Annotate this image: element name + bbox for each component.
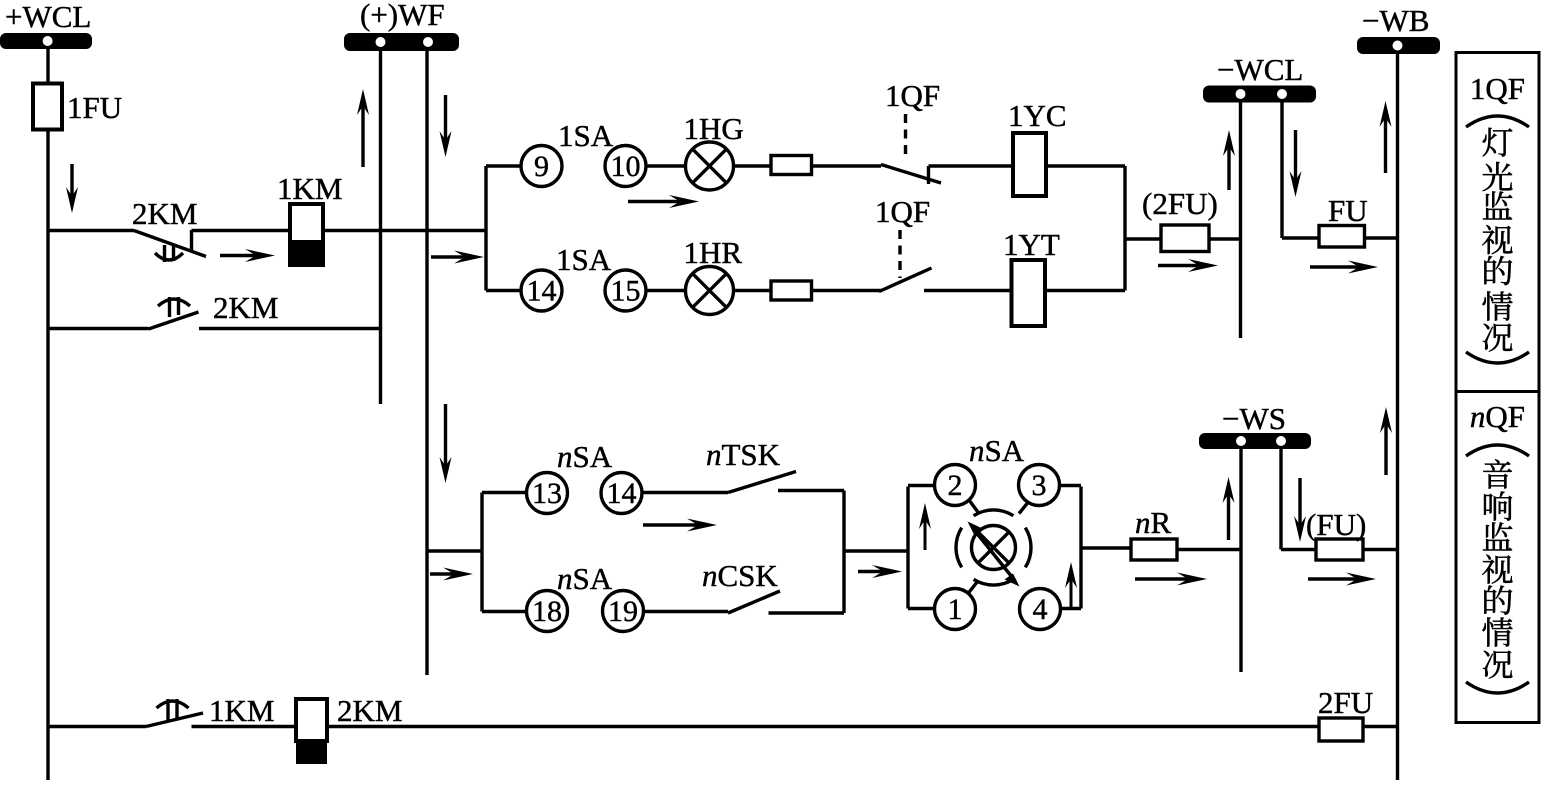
svg-text:(+)WF: (+)WF <box>360 0 445 32</box>
svg-text:FU: FU <box>1328 193 1368 228</box>
svg-text:15: 15 <box>611 275 641 308</box>
svg-text:nQF: nQF <box>1470 399 1525 434</box>
svg-text:1HR: 1HR <box>684 235 743 270</box>
svg-text:4: 4 <box>1033 593 1048 626</box>
svg-text:1KM: 1KM <box>277 171 342 206</box>
svg-text:1YT: 1YT <box>1003 227 1060 262</box>
svg-text:1KM: 1KM <box>209 693 274 728</box>
svg-text:1YC: 1YC <box>1008 98 1067 133</box>
svg-text:nCSK: nCSK <box>702 558 778 593</box>
svg-text:nSA: nSA <box>557 561 613 596</box>
svg-text:18: 18 <box>532 595 562 628</box>
svg-text:2FU: 2FU <box>1318 685 1373 720</box>
svg-text:1HG: 1HG <box>684 111 744 146</box>
svg-text:1QF: 1QF <box>875 194 930 229</box>
svg-text:+WCL: +WCL <box>5 0 91 34</box>
svg-text:−WB: −WB <box>1362 3 1429 38</box>
svg-text:nSA: nSA <box>969 433 1025 468</box>
svg-text:2KM: 2KM <box>213 290 278 325</box>
svg-text:nSA: nSA <box>557 439 613 474</box>
svg-text:1SA: 1SA <box>556 242 612 277</box>
svg-text:nTSK: nTSK <box>706 437 781 472</box>
svg-text:1QF: 1QF <box>885 78 940 113</box>
svg-text:−WCL: −WCL <box>1217 52 1303 87</box>
svg-text:(2FU): (2FU) <box>1142 186 1218 221</box>
svg-text:2KM: 2KM <box>337 693 402 728</box>
svg-text:9: 9 <box>534 150 549 183</box>
svg-text:(FU): (FU) <box>1306 507 1366 542</box>
svg-text:2: 2 <box>948 469 963 502</box>
svg-text:14: 14 <box>607 477 637 510</box>
svg-text:1SA: 1SA <box>558 118 614 153</box>
svg-text:1FU: 1FU <box>67 90 122 125</box>
svg-text:1: 1 <box>948 593 963 626</box>
svg-text:19: 19 <box>608 595 638 628</box>
svg-text:2KM: 2KM <box>132 196 197 231</box>
svg-text:10: 10 <box>611 150 641 183</box>
svg-text:13: 13 <box>532 477 562 510</box>
svg-text:−WS: −WS <box>1222 401 1286 436</box>
svg-text:3: 3 <box>1032 469 1047 502</box>
svg-text:1QF: 1QF <box>1470 71 1525 106</box>
svg-text:14: 14 <box>527 275 557 308</box>
svg-text:nR: nR <box>1135 505 1172 540</box>
